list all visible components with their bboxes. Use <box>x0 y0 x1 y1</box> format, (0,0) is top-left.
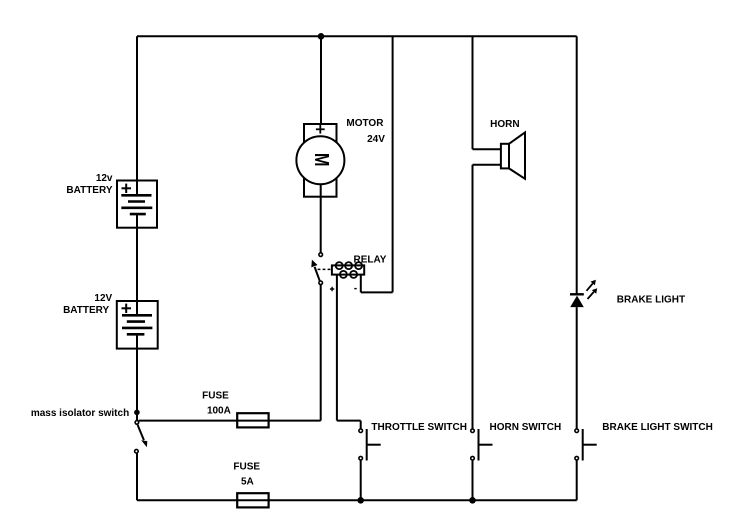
wire horn top lead <box>473 148 501 150</box>
svg-text:12V: 12V <box>94 293 112 304</box>
relay K1 coil minus mark <box>354 288 356 290</box>
horn switch S3 button stem <box>479 444 493 446</box>
wire battery1 to battery2 <box>136 214 138 315</box>
wire throttle switch to bus <box>360 460 362 501</box>
svg-text:mass isolator switch: mass isolator switch <box>31 408 129 419</box>
fuse F2 5A body <box>237 493 268 507</box>
svg-text:FUSE: FUSE <box>202 390 229 401</box>
wire coil lead to throttle switch horizontal <box>337 420 361 422</box>
relay K1 coil loops <box>336 262 362 278</box>
fuse F1 100A body <box>237 413 268 427</box>
horn switch S3 top terminal <box>471 429 475 433</box>
relay K1 actuation dashed link <box>318 268 332 270</box>
svg-text:FUSE: FUSE <box>233 462 260 473</box>
wire down to throttle switch <box>360 421 362 429</box>
wire brake switch to bus <box>576 460 578 501</box>
svg-text:HORN SWITCH: HORN SWITCH <box>490 422 562 433</box>
svg-text:BRAKE LIGHT SWITCH: BRAKE LIGHT SWITCH <box>602 422 713 433</box>
horn switch S3 button bar <box>478 429 480 461</box>
wire motor feed from rail <box>320 36 322 124</box>
node junction dot bus/horn <box>469 497 476 504</box>
svg-text:BRAKE LIGHT: BRAKE LIGHT <box>617 294 685 305</box>
wire top positive rail <box>137 35 577 37</box>
wire motor to relay switch <box>320 184 322 253</box>
svg-text:24V: 24V <box>367 134 385 145</box>
mass isolator switch bottom terminal <box>135 449 139 453</box>
relay K1 switch blade arrowhead <box>311 260 317 268</box>
wire riser fuse to relay switch <box>320 284 322 420</box>
battery B2 plus sign <box>122 304 132 313</box>
svg-text:5A: 5A <box>241 477 254 488</box>
wire brake light feed from rail <box>576 36 578 294</box>
motor M1 box <box>304 124 337 197</box>
wire isolator switch to bottom bus <box>136 453 138 500</box>
wire coil right lead horizontal <box>361 291 393 293</box>
motor M1 body circle <box>296 136 344 184</box>
mass isolator switch blade arrowhead <box>141 440 147 447</box>
brake light switch S4 button stem <box>583 444 597 446</box>
throttle switch S2 bottom terminal <box>359 456 363 460</box>
wire bottom negative bus <box>137 499 577 501</box>
node junction dot bus/throttle <box>357 497 364 504</box>
mass isolator switch blade <box>138 425 144 440</box>
horn switch S3 bottom terminal <box>471 456 475 460</box>
wire battery2 to mass isolator switch <box>136 334 138 420</box>
throttle switch S2 button bar <box>366 429 368 461</box>
svg-text:BATTERY: BATTERY <box>66 185 112 196</box>
motor M1 plus sign <box>316 125 325 134</box>
LED D1 triangle <box>570 296 584 308</box>
relay K1 switch bottom terminal <box>319 281 323 285</box>
battery B1 plates <box>121 195 152 214</box>
LED D1 cathode bar <box>570 293 584 295</box>
battery B2 12V box <box>117 301 158 349</box>
node junction dot at rail/motor <box>318 33 325 40</box>
wire horn feed from rail <box>472 36 474 149</box>
relay K1 coil plus mark <box>330 287 334 291</box>
svg-text:12v: 12v <box>96 173 113 184</box>
mass isolator switch junction dot <box>134 410 140 416</box>
LED D1 emission arrow 2 <box>588 288 598 299</box>
mass isolator switch top terminal <box>135 421 139 425</box>
wire horn switch to bus <box>472 460 474 501</box>
svg-text:100A: 100A <box>207 405 231 416</box>
brake light switch S4 bottom terminal <box>575 456 579 460</box>
svg-text:THROTTLE SWITCH: THROTTLE SWITCH <box>371 422 467 433</box>
wire relay coil right lead down <box>360 275 362 293</box>
wire battery feed from rail <box>136 36 138 195</box>
horn LS1 driver rect <box>501 144 509 169</box>
svg-text:MOTOR: MOTOR <box>346 118 384 129</box>
relay K1 coil box <box>332 265 364 274</box>
relay K1 switch blade <box>315 267 320 281</box>
brake light switch S4 button bar <box>582 429 584 461</box>
wire relay riser to rail <box>392 36 394 292</box>
wire LED to brake switch <box>576 307 578 429</box>
svg-text:BATTERY: BATTERY <box>63 305 109 316</box>
brake light switch S4 top terminal <box>575 429 579 433</box>
svg-text:RELAY: RELAY <box>354 254 387 265</box>
battery B1 12v box <box>117 181 157 228</box>
battery B2 plates <box>122 315 152 334</box>
wire horn to horn switch <box>472 165 474 429</box>
relay K1 switch top terminal <box>319 253 323 257</box>
throttle switch S2 button stem <box>367 444 381 446</box>
LED D1 emission arrow 1 <box>587 280 596 291</box>
throttle switch S2 top terminal <box>359 429 363 433</box>
wire relay coil left lead down <box>336 275 338 421</box>
wire horn bottom lead <box>473 164 501 166</box>
battery B1 plus sign <box>122 184 132 193</box>
horn LS1 cone <box>509 132 525 178</box>
svg-text:HORN: HORN <box>490 119 519 130</box>
wire fuse 100A horizontal <box>139 420 321 422</box>
svg-text:M: M <box>311 153 334 167</box>
